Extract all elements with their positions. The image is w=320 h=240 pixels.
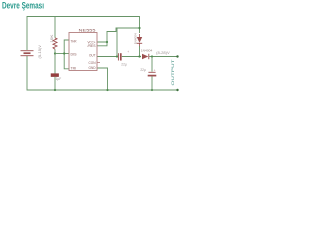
capacitor C3 22u vertical xyxy=(148,72,157,75)
svg-text:OUTPUT: OUTPUT xyxy=(171,58,175,85)
wire VCC top rail xyxy=(27,17,140,51)
node OUT junction xyxy=(116,55,118,57)
wire D1 to node A xyxy=(139,46,141,57)
wire R1 to C1 xyxy=(54,54,56,74)
svg-text:1N4004: 1N4004 xyxy=(133,33,137,44)
svg-text:Devre Şeması: Devre Şeması xyxy=(2,1,44,11)
node R1/DIS junction xyxy=(54,52,56,54)
node output terminal xyxy=(176,55,178,57)
svg-text:22µ: 22µ xyxy=(140,68,146,72)
node GND rail junction xyxy=(106,89,108,91)
diode D2 1N4004 horizontal xyxy=(141,49,153,60)
wire OUT pin xyxy=(97,56,117,58)
svg-text:THR: THR xyxy=(71,39,78,43)
svg-text:OUT: OUT xyxy=(89,53,96,57)
node THR/DIS junction xyxy=(63,52,65,54)
svg-text:/RES: /RES xyxy=(88,44,97,48)
diode D1 1N4004 vertical xyxy=(133,33,142,46)
svg-text:1N4004: 1N4004 xyxy=(141,49,153,53)
resistor R1 10K xyxy=(54,17,56,38)
wire THR-TRI link xyxy=(64,40,69,69)
svg-text:TRI: TRI xyxy=(71,66,77,70)
node rail junction xyxy=(138,27,140,29)
node A xyxy=(138,55,140,57)
node C3 bottom junction xyxy=(151,89,153,91)
capacitor C1 xyxy=(51,74,59,77)
svg-text:+: + xyxy=(127,50,129,54)
svg-text:(8-28)V: (8-28)V xyxy=(156,51,171,55)
svg-text:CON: CON xyxy=(89,61,97,65)
wire D2 to output xyxy=(149,56,177,58)
svg-text:(5-15)V: (5-15)V xyxy=(38,44,42,59)
wire C2 to node A xyxy=(122,56,141,58)
wire down to OUT node xyxy=(116,28,118,57)
node C1 ground junction xyxy=(54,89,56,91)
node C3 top junction xyxy=(151,55,153,57)
node ground rail end xyxy=(176,89,178,91)
svg-text:1µF: 1µF xyxy=(56,77,62,81)
pin CON stub xyxy=(97,62,100,64)
wire GND pin xyxy=(97,68,108,90)
svg-text:GND: GND xyxy=(89,66,97,70)
svg-text:DIS: DIS xyxy=(71,53,78,57)
wire VCC pins to rail xyxy=(107,28,140,42)
wire VCC+ /RES pins tie xyxy=(97,42,107,46)
svg-text:22µ: 22µ xyxy=(121,63,127,67)
capacitor C2 22u xyxy=(118,53,120,60)
node VCC pins junction xyxy=(106,41,108,43)
svg-text:+: + xyxy=(154,68,156,72)
wire ground rail xyxy=(27,56,178,90)
op-amp U1 NE555 box xyxy=(69,33,97,71)
svg-text:10K: 10K xyxy=(50,33,54,42)
wire C3 column xyxy=(151,57,153,72)
wire DIS pin xyxy=(55,53,69,55)
svg-text:NE555: NE555 xyxy=(79,28,97,33)
battery B1 xyxy=(21,51,34,56)
